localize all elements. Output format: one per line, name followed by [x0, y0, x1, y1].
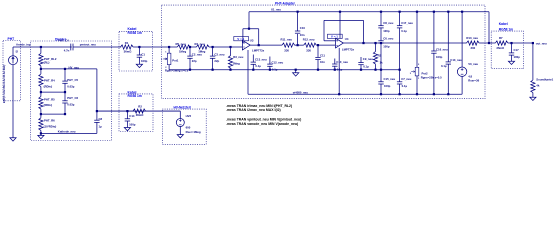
capacitor C9_neu — [360, 57, 362, 63]
svg-text:C16_neu: C16_neu — [436, 47, 448, 51]
svg-text:U4: U4 — [345, 37, 349, 41]
resistor R5_neu — [169, 46, 177, 48]
svg-text:V3_neu: V3_neu — [468, 62, 478, 66]
wire U4 power down — [338, 48, 340, 94]
svg-text:C17_neu: C17_neu — [401, 21, 413, 25]
ground I2 — [10, 138, 16, 141]
box HV-Netzteil — [162, 109, 206, 144]
wire divider node2 — [41, 113, 65, 115]
svg-text:0.1µ: 0.1µ — [272, 67, 278, 71]
svg-text:Pot1: Pot1 — [172, 59, 179, 63]
svg-text:C11: C11 — [320, 53, 325, 57]
svg-text:{10*RDiv}: {10*RDiv} — [44, 125, 58, 129]
capacitor C1 — [138, 47, 140, 55]
svg-text:RG58 1m: RG58 1m — [128, 94, 142, 98]
node C14 junction — [126, 110, 128, 112]
svg-text:0.1µ: 0.1µ — [402, 84, 408, 88]
svg-text:C9_neu: C9_neu — [363, 57, 373, 61]
potentiometer Pot2 — [416, 12, 418, 68]
svg-text:0.1µ: 0.1µ — [401, 29, 407, 33]
svg-text:R2: R2 — [138, 104, 142, 108]
svg-text:R11_neu: R11_neu — [281, 38, 293, 42]
capacitor C11 — [317, 44, 319, 46]
svg-text:4.7n: 4.7n — [64, 49, 70, 53]
capacitor C7_neu — [399, 70, 401, 82]
capacitor C8_neu — [380, 12, 382, 26]
box PHT-Adapter — [162, 5, 485, 99]
svg-text:EXP(0 4.8u 35u 8.3u 33.3u f/Hz: EXP(0 4.8u 35u 8.3u 33.3u f/Hz) — [2, 65, 6, 103]
box Kabel 2 — [119, 94, 153, 132]
ground Kathode — [40, 133, 42, 135]
svg-text:{RL}: {RL} — [44, 61, 51, 65]
svg-text:PHT_C4: PHT_C4 — [58, 38, 69, 42]
svg-text:4k: 4k — [536, 84, 540, 88]
node out_neu — [532, 42, 534, 44]
svg-text:.meas TRAN i2max_neu MAX I(I2): .meas TRAN i2max_neu MAX I(I2) — [226, 108, 281, 112]
resistor PHT_R6 — [40, 114, 42, 118]
svg-text:PHT_R6: PHT_R6 — [44, 119, 55, 123]
ground C14 — [124, 128, 130, 131]
svg-text:0.1µ: 0.1µ — [337, 68, 343, 72]
resistor PHT_R4 — [40, 69, 42, 74]
svg-text:36mΩ: 36mΩ — [124, 49, 133, 53]
svg-text:V = 1: V = 1 — [331, 35, 338, 39]
resistor R13_neu — [467, 41, 480, 45]
wire U3 to rail — [248, 12, 250, 29]
svg-text:.meas TRAN vanode_neu MIN V(an: .meas TRAN vanode_neu MIN V(anode_neu) — [226, 122, 298, 126]
svg-text:36mΩ: 36mΩ — [496, 46, 505, 50]
svg-text:C12_neu: C12_neu — [272, 61, 284, 65]
svg-text:PHT_R5: PHT_R5 — [44, 97, 55, 101]
wire HV vertical — [96, 69, 98, 111]
wire U3 out — [250, 44, 282, 46]
svg-text:22p: 22p — [192, 59, 197, 63]
op-amp U4 — [328, 34, 343, 38]
current source I2 — [9, 56, 18, 65]
capacitor C16_neu — [433, 12, 435, 51]
svg-text:100p: 100p — [436, 55, 443, 59]
wire U4 to rail — [339, 12, 341, 39]
svg-text:pmtout_neu: pmtout_neu — [80, 42, 96, 46]
resistor R11_neu — [282, 43, 295, 47]
svg-text:R2: R2 — [378, 53, 382, 57]
wire I2 top — [12, 47, 14, 56]
svg-text:HV-Netzteil: HV-Netzteil — [174, 105, 191, 109]
capacitor C6_neu — [378, 41, 383, 43]
svg-text:U3: U3 — [250, 38, 254, 42]
wire anode — [13, 46, 72, 48]
op-amp U3 — [234, 37, 249, 41]
box Kabel 3 — [491, 31, 524, 69]
svg-text:Anode_inp: Anode_inp — [16, 43, 31, 47]
capacitor C8 divider — [96, 111, 98, 120]
svg-text:C6_neu: C6_neu — [383, 37, 393, 41]
wire I2 bottom — [12, 65, 14, 138]
svg-text:Kabel: Kabel — [499, 22, 508, 26]
voltage source HV2 — [179, 111, 181, 118]
svg-text:100p: 100p — [384, 84, 391, 88]
capacitor C10_neu — [334, 59, 336, 65]
svg-text:RG58 1m: RG58 1m — [128, 31, 142, 35]
capacitor C3_neu — [212, 46, 214, 48]
svg-text:LMP773x: LMP773x — [342, 47, 355, 51]
ground mid rail — [295, 69, 297, 71]
svg-text:1µ: 1µ — [99, 125, 103, 129]
svg-text:1Meg: 1Meg — [233, 62, 240, 66]
svg-text:vt4080_neu: vt4080_neu — [293, 90, 309, 94]
wire Kathode — [41, 132, 97, 134]
resistor PHT_RL2 — [40, 47, 42, 53]
svg-text:0.1µ: 0.1µ — [441, 64, 447, 68]
svg-text:C1: C1 — [141, 52, 145, 56]
potentiometer Pot1 — [168, 47, 170, 53]
ground C17 — [508, 61, 514, 64]
svg-text:PHT_C6: PHT_C6 — [67, 96, 78, 100]
svg-text:0.03µ: 0.03µ — [67, 85, 74, 89]
wire pmtout — [73, 46, 121, 48]
svg-text:R7: R7 — [499, 36, 503, 40]
svg-text:330: 330 — [284, 48, 289, 52]
svg-text:22p: 22p — [214, 59, 219, 63]
svg-text:C14: C14 — [129, 114, 135, 118]
svg-text:R3_neu: R3_neu — [233, 55, 243, 59]
svg-text:HV_neu: HV_neu — [69, 65, 80, 69]
svg-text:0.03µ: 0.03µ — [67, 103, 74, 107]
voltage source V3_neu — [461, 12, 463, 67]
capacitor C17_neu — [399, 12, 401, 26]
svg-text:100p: 100p — [141, 59, 148, 63]
svg-text:10n: 10n — [320, 60, 325, 64]
svg-text:1Meg: 1Meg — [179, 50, 186, 54]
capacitor C14 — [126, 111, 128, 119]
svg-text:10n: 10n — [300, 33, 305, 37]
capacitor C2_neu — [189, 46, 191, 48]
wire U4 out — [343, 42, 466, 44]
node Pot1 junction — [168, 46, 170, 48]
svg-text:0.1µ: 0.1µ — [363, 64, 369, 68]
svg-text:C8_neu: C8_neu — [383, 21, 393, 25]
svg-text:R13_neu: R13_neu — [466, 36, 478, 40]
svg-text:100p: 100p — [129, 122, 136, 126]
wire rail drop right — [488, 12, 490, 43]
svg-text:C8: C8 — [99, 117, 103, 121]
svg-text:PHT_C5: PHT_C5 — [67, 78, 78, 82]
capacitor C13_neu right — [447, 12, 449, 62]
svg-text:100p: 100p — [514, 55, 521, 59]
svg-text:PHT_R4: PHT_R4 — [44, 78, 55, 82]
resistor R4_neu — [196, 45, 209, 49]
ground Soundkarte1 — [530, 97, 536, 100]
svg-text:R1: R1 — [125, 41, 129, 45]
svg-text:C15_neu: C15_neu — [384, 77, 396, 81]
svg-text:V = 1: V = 1 — [237, 37, 244, 41]
svg-text:C13_neu: C13_neu — [450, 58, 462, 62]
resistor R2 cable — [133, 109, 146, 113]
svg-text:Rges=2Meg x=0.6: Rges=2Meg x=0.6 — [165, 69, 189, 73]
svg-text:R4_neu: R4_neu — [195, 42, 205, 46]
svg-text:C3_neu: C3_neu — [214, 53, 224, 57]
svg-text:Rges=22k x=0.5: Rges=22k x=0.5 — [421, 76, 442, 80]
box Kabel 1 — [119, 31, 153, 71]
capacitor PHT_C5 — [64, 68, 66, 70]
resistor R1 cable — [121, 45, 134, 49]
node anode junction — [40, 46, 42, 48]
wire rail X1_neu — [249, 11, 489, 13]
wire U3 feedback — [242, 29, 244, 43]
svg-text:0.1µ: 0.1µ — [255, 64, 261, 68]
svg-text:LMP773x: LMP773x — [252, 49, 265, 53]
box PHT — [3, 41, 21, 101]
node HV junction — [40, 68, 42, 70]
wire ground rail — [169, 69, 400, 71]
svg-text:HV2: HV2 — [186, 114, 192, 118]
resistor R7 cable — [495, 41, 508, 45]
svg-text:R5_neu: R5_neu — [176, 42, 186, 46]
svg-text:X1_neu: X1_neu — [271, 8, 281, 12]
wire HV_neu — [41, 68, 97, 70]
svg-text:36mΩ: 36mΩ — [136, 113, 145, 117]
svg-text:C10: C10 — [300, 26, 306, 30]
svg-text:.meas TRAN vpmtout_neu MIN V(p: .meas TRAN vpmtout_neu MIN V(pmtout_neu) — [226, 117, 301, 121]
svg-text:{RDiv}: {RDiv} — [44, 103, 53, 107]
svg-text:{RDiv}: {RDiv} — [44, 85, 53, 89]
svg-text:PHT: PHT — [8, 37, 15, 41]
resistor R12_neu — [298, 44, 304, 46]
svg-text:R12_neu: R12_neu — [303, 38, 315, 42]
box Divider — [31, 41, 112, 141]
wire U4 feedback — [324, 40, 336, 42]
svg-text:1k: 1k — [380, 61, 384, 65]
svg-text:out_neu: out_neu — [536, 41, 547, 45]
resistor PHT_R5 — [40, 92, 42, 96]
svg-text:C17: C17 — [514, 48, 520, 52]
wire divider node1 — [41, 91, 65, 93]
capacitor C17 cable — [510, 42, 512, 44]
svg-text:C2_neu: C2_neu — [192, 53, 202, 57]
svg-text:C7_neu: C7_neu — [401, 77, 411, 81]
svg-text:330: 330 — [471, 46, 476, 50]
wire HV to HV2 — [97, 110, 180, 112]
wire U3 power down — [247, 50, 249, 94]
resistor Soundkarte1 — [532, 43, 534, 80]
svg-text:Kathode_neu: Kathode_neu — [58, 129, 76, 133]
svg-text:100p: 100p — [383, 44, 390, 48]
capacitor PHT_C6 — [64, 92, 66, 101]
capacitor C15_neu — [380, 43, 382, 82]
svg-text:Rser=36: Rser=36 — [468, 79, 479, 83]
ground C1 — [136, 64, 142, 67]
svg-text:RG58 1m: RG58 1m — [499, 27, 513, 31]
svg-text:PHT-Adapter: PHT-Adapter — [275, 1, 296, 5]
node C1 junction — [138, 46, 140, 48]
wire HV2 bottom — [179, 127, 181, 135]
ground HV2 — [177, 135, 183, 138]
capacitor PHT_C4 — [70, 44, 72, 51]
svg-text:Soundkarte1: Soundkarte1 — [536, 78, 553, 82]
resistor R2 1k — [374, 42, 376, 44]
svg-text:330: 330 — [306, 48, 311, 52]
svg-text:100p: 100p — [383, 29, 390, 33]
capacitor C12_neu — [269, 57, 271, 65]
svg-text:Rser=1Meg: Rser=1Meg — [186, 130, 201, 134]
capacitor C13_neu left — [252, 55, 254, 63]
capacitor C10 — [297, 34, 299, 45]
resistor R3_neu — [229, 46, 231, 48]
wire lower rail — [248, 93, 462, 95]
svg-text:C13_neu: C13_neu — [255, 58, 267, 62]
svg-text:C10_neu: C10_neu — [336, 60, 348, 64]
